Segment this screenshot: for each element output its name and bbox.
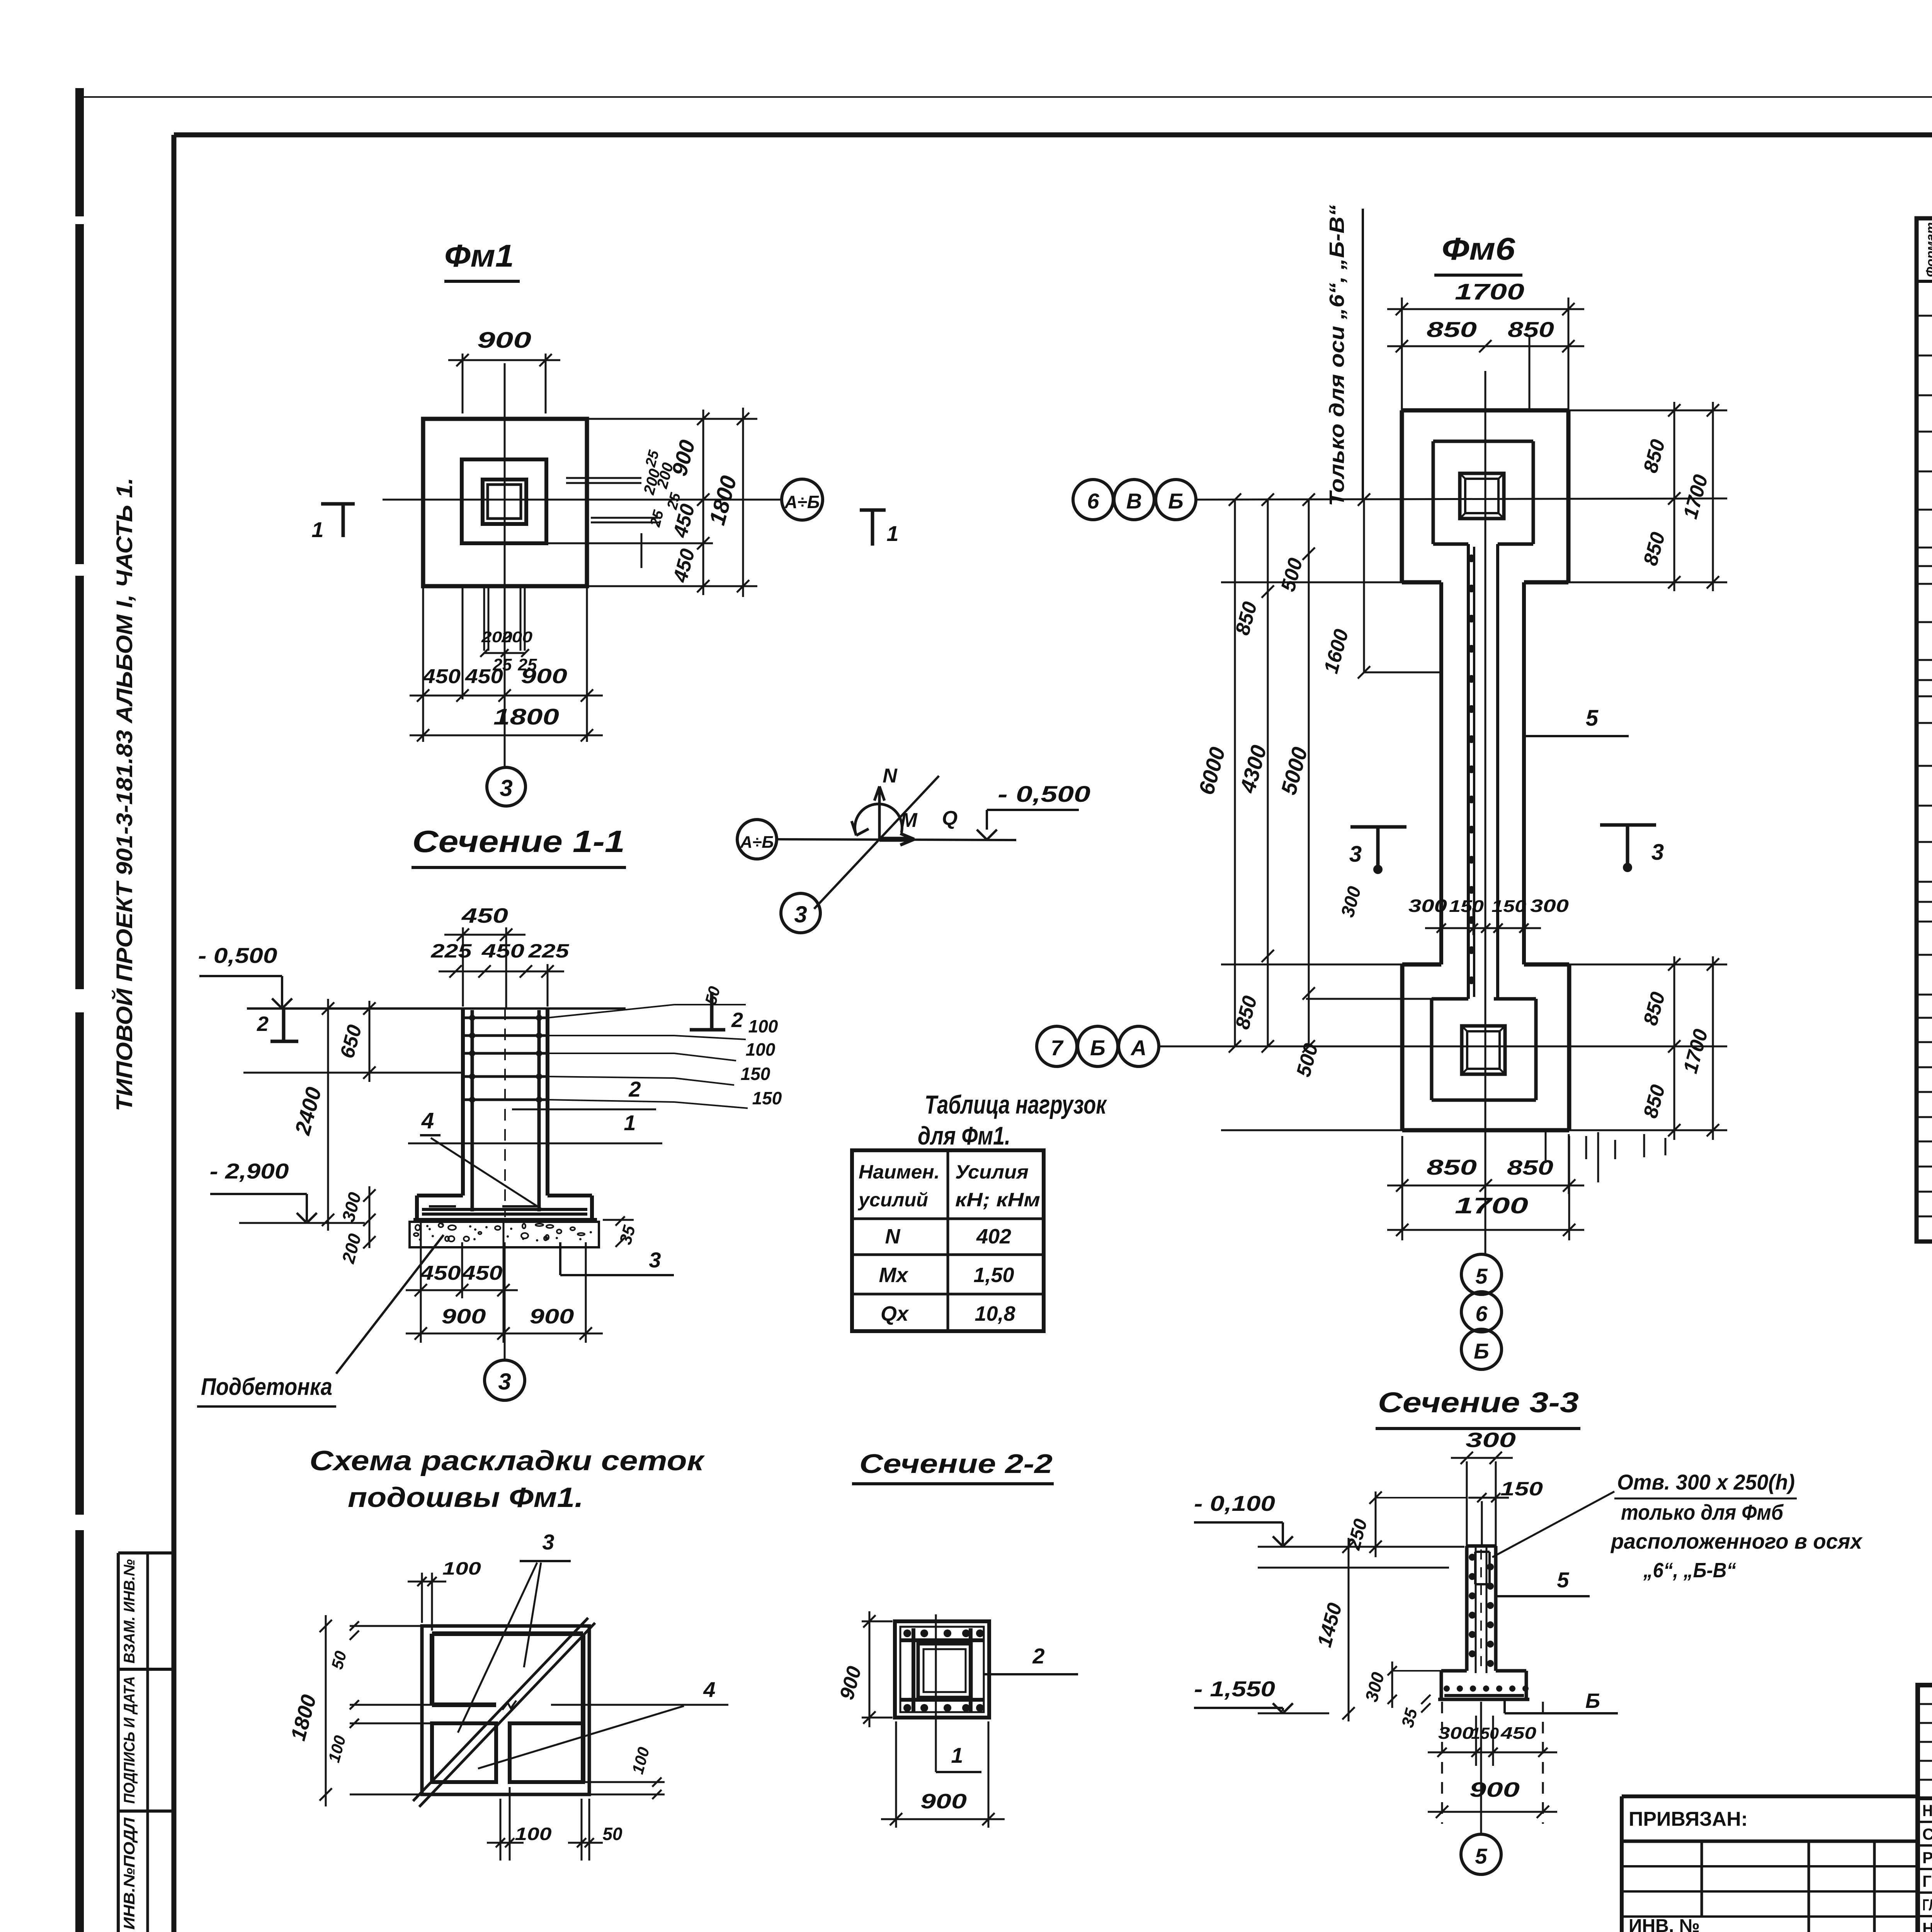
svg-text:900: 900: [530, 1305, 574, 1328]
svg-text:Наимен.: Наимен.: [859, 1161, 940, 1183]
Фм1 bottom small dims 200 200 25 25: [480, 629, 537, 674]
paper left edge black band: [75, 88, 84, 1932]
svg-text:СТ. ИНЖ.: СТ. ИНЖ.: [1922, 1825, 1932, 1843]
svg-text:Схема раскладки сеток: Схема раскладки сеток: [310, 1446, 705, 1476]
Фм6 web walls: [1441, 544, 1524, 999]
Фм6 только для оси label: [1325, 205, 1363, 506]
svg-text:225: 225: [430, 940, 472, 962]
svg-text:2: 2: [628, 1077, 641, 1101]
svg-text:7: 7: [1051, 1036, 1064, 1060]
section 1-1 stirrups: [463, 1015, 548, 1103]
svg-text:Qх: Qх: [881, 1302, 909, 1325]
svg-text:300: 300: [1438, 1724, 1474, 1743]
section 3-3 bottom circle 5: [1461, 1702, 1501, 1874]
section 3-3 elevation -0,100: [1194, 1491, 1464, 1568]
section 2-2 left dim 900: [835, 1611, 893, 1727]
svg-text:А÷Б: А÷Б: [740, 833, 774, 852]
svg-text:150: 150: [1500, 1478, 1543, 1500]
svg-text:300: 300: [1408, 896, 1447, 916]
svg-text:5: 5: [1586, 706, 1599, 731]
svg-text:6: 6: [1475, 1301, 1488, 1326]
svg-text:Усилия: Усилия: [955, 1161, 1029, 1183]
схема mesh 4 bottom-left cell: [432, 1723, 496, 1782]
Фм6 top flange step: [1433, 441, 1533, 544]
svg-text:ИНВ. №: ИНВ. №: [1629, 1916, 1700, 1932]
svg-text:3: 3: [1349, 842, 1362, 867]
схема dims right 100: [583, 1745, 665, 1799]
Фм6 bottom flange outline: [1402, 964, 1569, 1130]
svg-text:450: 450: [461, 1262, 502, 1284]
svg-text:N: N: [883, 765, 898, 787]
svg-text:100: 100: [442, 1558, 481, 1578]
svg-text:100: 100: [515, 1824, 552, 1844]
схема mesh 3 outline: [432, 1634, 583, 1782]
svg-text:Подбетонка: Подбетонка: [201, 1374, 332, 1400]
схема mesh 4 bottom-right cell: [510, 1723, 583, 1782]
specification table grid: [1917, 218, 1932, 1242]
section 2-2 title: [852, 1449, 1054, 1484]
svg-text:1800: 1800: [493, 704, 559, 730]
svg-text:Б: Б: [1090, 1036, 1105, 1060]
svg-text:1700: 1700: [1455, 279, 1524, 304]
svg-text:Только для оси „6“, „Б-В“: Только для оси „6“, „Б-В“: [1325, 205, 1349, 506]
svg-text:Н. КОНТР.: Н. КОНТР.: [1922, 1801, 1932, 1820]
svg-text:450: 450: [465, 665, 503, 688]
section 1-1 bottom dims 450 450: [406, 1221, 518, 1343]
Фм6 vertical axis: [1485, 371, 1486, 1255]
svg-text:- 2,900: - 2,900: [210, 1159, 289, 1183]
section 3-3 wall: [1467, 1546, 1496, 1673]
section 1-1 left dim 2400: [290, 999, 334, 1231]
Фм6 axis Б horizontal: [1196, 498, 1727, 500]
svg-text:100: 100: [748, 1016, 778, 1036]
svg-text:M: M: [900, 809, 918, 832]
svg-text:900: 900: [521, 665, 567, 688]
Фм6 web mesh with dots: [1468, 547, 1475, 997]
svg-text:450: 450: [422, 665, 461, 688]
section 3-3 opening: [1475, 1552, 1490, 1584]
margin label ИНВ.№ПОДЛ: [121, 1817, 138, 1930]
svg-text:450: 450: [461, 904, 508, 927]
svg-text:6: 6: [1087, 489, 1099, 513]
svg-text:1: 1: [624, 1111, 636, 1135]
svg-text:2: 2: [257, 1012, 269, 1036]
section 1-1 bottom circle 3: [485, 1242, 525, 1400]
Фм1 bottom witness bars: [423, 586, 587, 742]
svg-text:900: 900: [1469, 1778, 1520, 1801]
margin label ВЗАМ.ИНВ.№: [121, 1559, 138, 1663]
svg-text:Б: Б: [1585, 1689, 1600, 1713]
section 1-1 column outline: [247, 1009, 626, 1196]
Фм1 right small dims 200 200 25: [640, 448, 684, 529]
Фм6 left dim chains: [1221, 493, 1439, 1130]
section 2-2 column square: [895, 1621, 989, 1718]
svg-text:Q: Q: [942, 807, 957, 830]
Фм6 right dims top flange 850 850 1700: [1568, 402, 1727, 591]
svg-text:- 1,550: - 1,550: [1194, 1677, 1275, 1701]
svg-text:- 0,100: - 0,100: [1194, 1491, 1275, 1515]
схема раскладки title: [310, 1446, 705, 1513]
section 1-1 left dims 300 200: [338, 1186, 376, 1266]
title block frame: [1918, 1685, 1932, 1932]
svg-text:Сечение 2-2: Сечение 2-2: [859, 1449, 1053, 1479]
схема leader 4: [478, 1677, 728, 1769]
section 3-3 left dims 250 1450 300 35: [1313, 1492, 1467, 1730]
load scheme elevation -0,500: [977, 782, 1090, 840]
svg-text:1: 1: [886, 521, 898, 546]
svg-text:150: 150: [752, 1088, 782, 1108]
svg-text:900: 900: [442, 1305, 486, 1328]
section 3-3 top dim 300: [1451, 1429, 1543, 1502]
svg-text:5: 5: [1475, 1264, 1488, 1288]
section 2-2 bottom dim 900: [881, 1721, 1005, 1828]
section 1-1 bottom dims 900 900: [406, 1242, 603, 1343]
svg-text:900: 900: [920, 1790, 967, 1813]
svg-text:850: 850: [1427, 317, 1477, 342]
svg-text:„6“, „Б-В“: „6“, „Б-В“: [1643, 1559, 1736, 1582]
svg-text:РУК. ГР.: РУК. ГР.: [1922, 1849, 1932, 1867]
svg-text:А: А: [1130, 1036, 1146, 1060]
svg-text:- 0,500: - 0,500: [998, 782, 1090, 807]
section 1-1 footing mesh: [422, 1206, 587, 1214]
Фм1 right dimension chain 900 450 450: [546, 410, 757, 595]
Фм1 axis lines: [383, 363, 781, 767]
svg-text:усилий: усилий: [857, 1189, 928, 1211]
section 3-3 wall rebar dots: [1469, 1549, 1494, 1673]
section 1-1 section marks 2: [257, 992, 743, 1041]
svg-text:В: В: [1126, 489, 1142, 513]
svg-text:Фм1: Фм1: [444, 238, 514, 274]
svg-text:Б: Б: [1168, 489, 1184, 513]
Фм1 axis circle 3: [487, 767, 526, 806]
схема раскладки outer square: [422, 1626, 589, 1794]
Фм6 top dims 1700 / 850 850: [1387, 279, 1584, 410]
section 3-3 leader 5: [1496, 1568, 1590, 1596]
Фм1 section mark 1 left: [311, 504, 355, 542]
svg-text:ГЛ. КОНСТР: ГЛ. КОНСТР: [1922, 1896, 1932, 1914]
svg-text:300: 300: [1466, 1429, 1516, 1452]
схема dims bottom 100 50: [487, 1787, 622, 1861]
section 1-1 elevation -2,900: [210, 1159, 365, 1223]
Фм1 top dimension 900: [448, 328, 560, 413]
svg-text:Формат: Формат: [1923, 222, 1932, 277]
Фм1 section mark 1 right: [860, 510, 899, 546]
Фм6 axis А horizontal: [1158, 1046, 1727, 1048]
svg-text:100: 100: [746, 1039, 776, 1060]
svg-text:200: 200: [501, 629, 532, 646]
section 3-3 elevation -1,550: [1194, 1677, 1329, 1713]
svg-text:1700: 1700: [1455, 1193, 1528, 1218]
svg-text:3: 3: [794, 901, 807, 927]
Фм6 title: [1434, 231, 1522, 275]
section 2-2 leader 1: [936, 1743, 981, 1772]
svg-text:ИНВ.№ПОДЛ: ИНВ.№ПОДЛ: [121, 1817, 138, 1930]
Фм1 bottom dimension 450 450 900: [410, 665, 603, 702]
load table texts: [857, 1161, 1040, 1325]
Фм6 stray dashes: [1546, 1132, 1665, 1194]
section 2-2 rebar dots: [903, 1629, 984, 1712]
section 1-1 dim 35: [603, 1216, 639, 1247]
svg-text:3: 3: [500, 775, 512, 801]
svg-text:кН; кНм: кН; кНм: [955, 1189, 1040, 1211]
svg-text:5: 5: [1557, 1568, 1569, 1592]
Фм1 bottom dimension 1800: [410, 704, 603, 742]
svg-text:4: 4: [421, 1108, 434, 1133]
load scheme circle 3: [781, 893, 820, 933]
Фм1 mesh leader lines: [566, 478, 660, 568]
svg-text:225: 225: [528, 940, 570, 962]
схема раскладки diagonals: [413, 1618, 595, 1807]
section 3-3 label Б: [1505, 1689, 1618, 1713]
Фм6 top flange outline: [1402, 410, 1568, 582]
svg-text:ГИП: ГИП: [1922, 1872, 1932, 1890]
Фм6 bottom dims 850 850: [1387, 1136, 1584, 1240]
Фм6 web dims 300 150 150 300: [1408, 896, 1569, 935]
svg-text:150: 150: [1471, 1724, 1499, 1742]
Фм6 bottom dim 1700: [1387, 1193, 1584, 1236]
margin label ПОДПИСЬ И ДАТА: [121, 1676, 138, 1804]
svg-text:для Фм1.: для Фм1.: [918, 1121, 1010, 1150]
load scheme N axis with arrow: [874, 786, 884, 840]
svg-text:150: 150: [1492, 897, 1527, 916]
load scheme axis line: [777, 839, 1016, 840]
section 1-1 column rebar: [472, 1009, 539, 1217]
схема leader 3: [458, 1530, 571, 1733]
spec table header texts: [1923, 222, 1932, 277]
svg-text:ПРИВЯЗАН:: ПРИВЯЗАН:: [1629, 1808, 1748, 1830]
load table grid: [852, 1150, 1044, 1331]
svg-text:Сечение 1-1: Сечение 1-1: [412, 824, 625, 859]
section 3-3 title: [1376, 1386, 1580, 1429]
Фм6 left dim texts: [1194, 556, 1365, 1079]
svg-text:Таблица нагрузок: Таблица нагрузок: [925, 1090, 1107, 1119]
svg-text:ВЗАМ. ИНВ.№: ВЗАМ. ИНВ.№: [121, 1559, 138, 1663]
Фм6 bottom column: [1462, 1026, 1505, 1074]
Фм1 right dimension 1800: [704, 408, 749, 597]
svg-text:900: 900: [477, 328, 531, 353]
paper top edge line: [81, 96, 1932, 98]
svg-text:3: 3: [649, 1248, 661, 1272]
svg-text:3: 3: [498, 1369, 511, 1395]
section 3-3 bottom dims 300 150 450 900: [1428, 1702, 1557, 1824]
section 1-1 leader 4: [420, 1108, 541, 1209]
section 1-1 title: [412, 824, 626, 867]
svg-text:Мх: Мх: [879, 1264, 908, 1287]
section 3-3 wall upper witness lines: [1467, 1461, 1496, 1546]
section 3-3 footing: [1438, 1671, 1529, 1699]
схема dims left 1800 50 100: [286, 1615, 432, 1806]
svg-text:расположенного в осях: расположенного в осях: [1610, 1529, 1863, 1553]
svg-text:150: 150: [741, 1064, 770, 1084]
load scheme axis circle А÷Б: [737, 820, 777, 859]
svg-text:300: 300: [1530, 896, 1569, 916]
svg-text:1,50: 1,50: [973, 1264, 1014, 1287]
svg-text:5: 5: [1475, 1844, 1487, 1868]
подбетонка strip: [410, 1222, 599, 1247]
svg-text:1: 1: [311, 517, 323, 542]
section 3-3 opening leader text: [1492, 1470, 1863, 1582]
section 1-1 footing: [413, 1196, 597, 1220]
Фм6 leader 5: [1524, 706, 1629, 736]
Фм6 axis circles 6 В Б: [1073, 480, 1196, 520]
подбетонка leader and label: [197, 1235, 444, 1406]
load scheme Q arrow: [879, 833, 914, 845]
svg-text:450: 450: [1500, 1724, 1537, 1743]
svg-text:450: 450: [481, 940, 525, 962]
svg-text:2: 2: [1032, 1644, 1044, 1668]
load scheme labels N M Q: [883, 765, 957, 832]
svg-text:4: 4: [703, 1677, 715, 1702]
svg-text:402: 402: [976, 1225, 1011, 1248]
svg-text:3: 3: [1651, 840, 1664, 865]
svg-text:150: 150: [1449, 897, 1484, 916]
svg-text:Сечение 3-3: Сечение 3-3: [1378, 1386, 1579, 1418]
привязан box: [1622, 1796, 1918, 1932]
svg-text:N: N: [885, 1225, 901, 1248]
section 1-1 elevation -0,500: [198, 943, 293, 1009]
svg-text:только для Фмб: только для Фмб: [1621, 1500, 1784, 1524]
Фм1 plan outline: [423, 419, 587, 586]
svg-text:850: 850: [1508, 317, 1554, 342]
section 2-2 leader 2: [983, 1644, 1078, 1674]
section 1-1 stirrup leaders and spacing labels: [548, 985, 782, 1108]
Фм6 bottom axis circles 5 6 Б: [1461, 1254, 1502, 1369]
svg-text:Фм6: Фм6: [1442, 231, 1516, 267]
section 1-1 top dims 450 / 225 450 225: [430, 904, 570, 1009]
load scheme M arc: [852, 804, 902, 835]
Фм6 right dims bottom flange 850 850 1700: [1569, 956, 1727, 1140]
section 1-1 left dim 650: [243, 1001, 463, 1082]
Фм6 section marks 3-3: [1349, 825, 1664, 874]
Фм1 axis circle А÷Б: [782, 479, 823, 520]
margin stamp strip: [118, 1553, 174, 1932]
Фм1 title: [444, 238, 520, 281]
svg-text:подошвы Фм1.: подошвы Фм1.: [348, 1482, 583, 1513]
section 1-1 leaders 2 and 1: [408, 1077, 662, 1143]
svg-text:2: 2: [731, 1009, 743, 1032]
margin project title vertical text: [112, 478, 137, 1111]
svg-text:850: 850: [1427, 1155, 1477, 1179]
load table title: [918, 1090, 1107, 1150]
Фм6 axis circles 7 Б А: [1037, 1026, 1159, 1066]
svg-text:50: 50: [602, 1824, 622, 1844]
Фм6 top column: [1460, 473, 1504, 519]
section 1-1 leader 3: [560, 1242, 674, 1275]
Фм6 bottom flange step: [1432, 999, 1536, 1100]
load scheme diagonal: [814, 776, 939, 909]
схема dims top 100: [408, 1558, 481, 1631]
svg-text:10,8: 10,8: [975, 1302, 1015, 1325]
svg-text:ПОДПИСЬ И ДАТА: ПОДПИСЬ И ДАТА: [121, 1676, 138, 1804]
svg-text:3: 3: [542, 1530, 554, 1554]
title block roles and names: [1922, 1801, 1932, 1932]
svg-text:НАЧ. ОТД: НАЧ. ОТД: [1922, 1919, 1932, 1932]
svg-text:А÷Б: А÷Б: [784, 492, 820, 512]
svg-text:450: 450: [420, 1262, 461, 1284]
section 2-2 axis line: [935, 1614, 937, 1772]
svg-text:Б: Б: [1474, 1339, 1489, 1363]
svg-text:Отв. 300 х 250(h): Отв. 300 х 250(h): [1617, 1470, 1795, 1494]
svg-text:ТИПОВОЙ ПРОЕКТ 901-3-181.83 АЛ: ТИПОВОЙ ПРОЕКТ 901-3-181.83 АЛЬБОМ I, ЧА…: [112, 478, 137, 1111]
svg-text:1: 1: [951, 1743, 963, 1767]
svg-text:- 0,500: - 0,500: [198, 943, 277, 968]
